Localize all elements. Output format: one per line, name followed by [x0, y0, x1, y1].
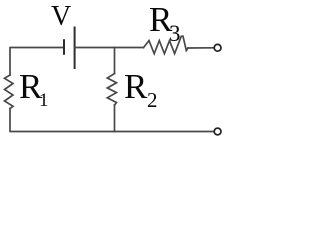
label R1 subscript 1 — [39, 91, 49, 110]
wire middle vertical from top node to R2 — [114, 48, 116, 74]
label R3 — [149, 2, 172, 37]
label R2 subscript 2 — [147, 90, 158, 111]
terminal top-right open circle — [214, 44, 221, 51]
label R1 — [19, 69, 42, 104]
label V — [51, 3, 71, 31]
label R3 subscript 3 — [169, 22, 181, 45]
wire R3 to top terminal — [188, 47, 213, 49]
wire left rail below R1 and bottom horizontal — [10, 109, 213, 132]
resistor R2 — [107, 74, 116, 106]
terminal bottom-right open circle — [214, 128, 221, 135]
wire battery to node junction — [75, 47, 144, 49]
wire top-left horizontal from battery to left rail corner — [10, 48, 63, 76]
battery V long plate — [74, 28, 76, 69]
wire R2 bottom to bottom rail — [114, 105, 116, 132]
resistor R1 — [5, 75, 14, 109]
battery V short plate — [63, 40, 65, 54]
resistor R3 — [144, 36, 189, 54]
label R2 — [124, 69, 147, 104]
